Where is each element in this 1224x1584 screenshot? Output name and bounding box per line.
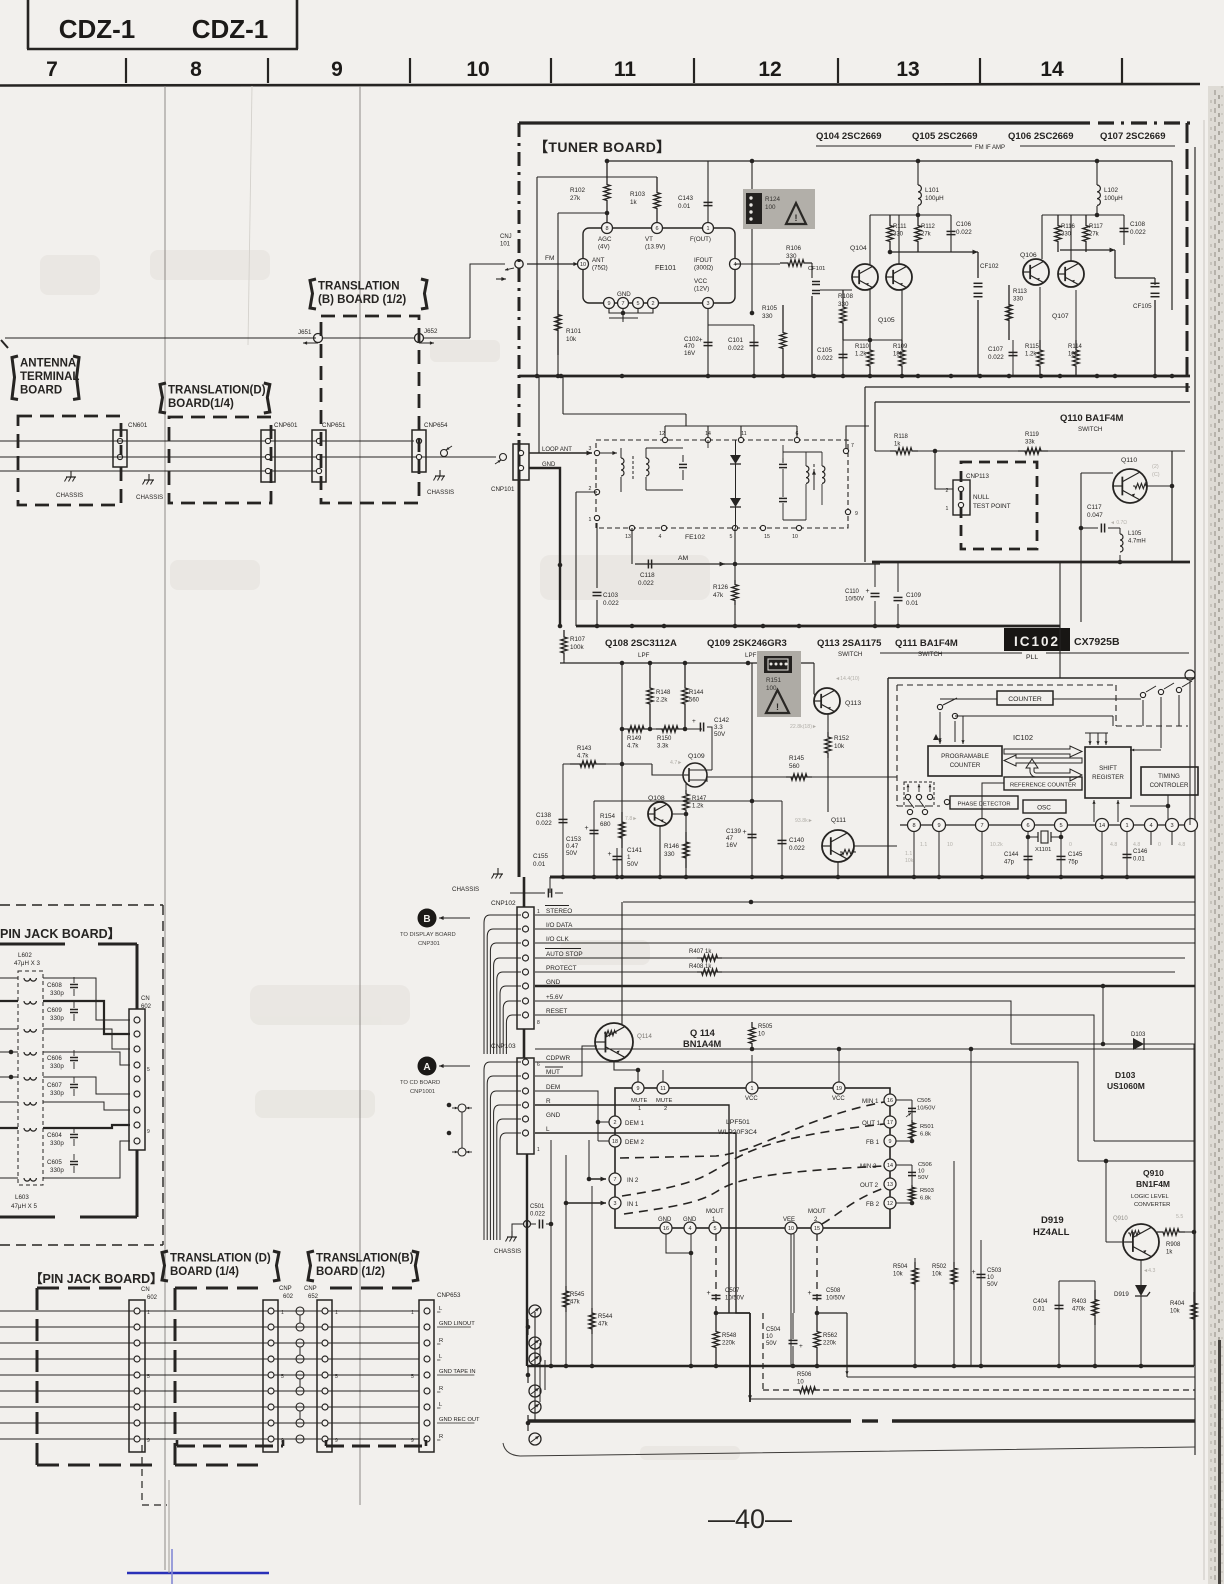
svg-text:R403: R403	[1072, 1299, 1087, 1305]
svg-text:IFOUT: IFOUT	[694, 257, 713, 264]
transistor Q105	[886, 264, 912, 290]
pin 4	[730, 259, 741, 270]
svg-text:L101: L101	[925, 187, 940, 194]
svg-text:11: 11	[741, 431, 746, 437]
svg-text:CNP653: CNP653	[437, 1292, 461, 1299]
capacitor C142	[699, 723, 701, 732]
svg-text:10k: 10k	[932, 1272, 943, 1278]
capacitor C105	[842, 340, 844, 376]
FE102 transformer 1	[621, 458, 624, 476]
jack stub	[441, 450, 448, 457]
svg-text:330p: 330p	[50, 1090, 64, 1097]
svg-text:1: 1	[627, 854, 631, 861]
svg-text:CNP101: CNP101	[491, 486, 515, 493]
svg-text:MOUT: MOUT	[808, 1209, 826, 1215]
wire	[537, 176, 657, 178]
svg-text:C143: C143	[678, 195, 694, 202]
wire VCC pins	[751, 1055, 753, 1082]
capacitor C503	[980, 1049, 982, 1366]
svg-text:11: 11	[660, 1086, 666, 1092]
connector CN602 lower	[129, 1300, 145, 1452]
svg-text:6.8k: 6.8k	[920, 1131, 931, 1137]
svg-text:C504: C504	[766, 1327, 781, 1333]
svg-text:Q910: Q910	[1113, 1216, 1128, 1222]
svg-text:FE101: FE101	[655, 263, 676, 272]
SR bottom arrows	[1093, 800, 1095, 822]
svg-text:+: +	[799, 1343, 803, 1350]
svg-text:4.7mH: 4.7mH	[1128, 539, 1146, 545]
svg-text:(C): (C)	[1152, 472, 1160, 478]
triple arrows	[1085, 732, 1108, 734]
svg-text:9: 9	[331, 58, 343, 81]
resistor R147	[685, 782, 687, 790]
svg-text:9: 9	[147, 1438, 150, 1444]
svg-text:R562: R562	[823, 1333, 838, 1339]
svg-text:GND: GND	[658, 1217, 672, 1223]
svg-text:PROTECT: PROTECT	[546, 965, 577, 972]
svg-text:PHASE DETECTOR: PHASE DETECTOR	[957, 802, 1010, 808]
svg-text:RESET: RESET	[546, 1008, 567, 1015]
svg-text:330: 330	[1013, 297, 1024, 303]
svg-text:Q107 2SC2669: Q107 2SC2669	[1100, 131, 1166, 142]
box Q910 left edge	[970, 1049, 972, 1366]
svg-text:R111: R111	[893, 224, 907, 230]
resistor R154	[619, 812, 625, 848]
transistor Q113	[814, 688, 840, 714]
svg-text:1: 1	[946, 506, 949, 512]
svg-text:1.1: 1.1	[905, 851, 912, 857]
svg-text:0.022: 0.022	[536, 820, 552, 827]
pin row PLL	[908, 819, 921, 832]
svg-text:C604: C604	[47, 1132, 62, 1139]
svg-text:9: 9	[937, 823, 940, 829]
svg-text:(12V): (12V)	[694, 286, 709, 293]
capacitor C101	[708, 324, 754, 326]
connector CN601	[113, 430, 127, 467]
svg-text:BOARD (1/2): BOARD (1/2)	[316, 1266, 385, 1278]
svg-text:10: 10	[580, 262, 586, 268]
svg-text:3.3k: 3.3k	[657, 744, 669, 750]
svg-text:Q104: Q104	[850, 245, 867, 252]
svg-text:+: +	[743, 829, 747, 836]
svg-text:0.47: 0.47	[566, 843, 579, 850]
svg-text:0.01: 0.01	[1033, 1307, 1045, 1313]
svg-text:330: 330	[664, 851, 675, 858]
wire row3	[0, 470, 316, 472]
svg-text:R: R	[439, 1434, 443, 1440]
svg-text:8: 8	[190, 58, 202, 81]
test point circles	[458, 1104, 466, 1112]
PLL dashed boundary	[897, 684, 1116, 686]
svg-text:CHASSIS: CHASSIS	[427, 489, 454, 496]
svg-text:12: 12	[659, 431, 665, 437]
svg-text:CF101: CF101	[808, 266, 825, 272]
wire CDPWR long	[535, 1062, 1078, 1161]
svg-text:C153: C153	[566, 836, 582, 843]
zener D919	[1140, 1260, 1142, 1285]
dashed signal curves	[620, 1102, 884, 1158]
filter CF101	[811, 263, 813, 278]
wire pin7 link	[846, 426, 869, 448]
svg-text:ANT: ANT	[592, 257, 605, 264]
svg-text:CNJ: CNJ	[500, 234, 512, 240]
svg-text:330p: 330p	[50, 1015, 64, 1022]
svg-text:(2): (2)	[1152, 464, 1159, 470]
resistor R114	[1073, 340, 1079, 376]
svg-text:1.2k: 1.2k	[855, 352, 867, 358]
svg-text:CNP: CNP	[304, 1286, 317, 1292]
harness CNP103	[483, 1061, 485, 1063]
resistor R126	[734, 528, 736, 580]
svg-text:C142: C142	[714, 717, 730, 724]
svg-text:C506: C506	[918, 1162, 932, 1168]
svg-text:+: +	[608, 851, 612, 858]
svg-text:8: 8	[605, 226, 608, 232]
svg-text:4.8: 4.8	[1133, 842, 1140, 848]
wire counter right	[1053, 698, 1141, 700]
svg-text:GND REC OUT: GND REC OUT	[439, 1417, 480, 1423]
svg-text:J651: J651	[298, 329, 312, 336]
svg-text:R107: R107	[570, 636, 586, 643]
svg-text:5: 5	[335, 1374, 338, 1380]
capacitor C143	[707, 161, 709, 224]
svg-text:C102: C102	[684, 336, 700, 343]
svg-text:7: 7	[621, 301, 624, 307]
svg-text:Q110 BA1F4M: Q110 BA1F4M	[1060, 413, 1123, 424]
svg-text:D919: D919	[1114, 1291, 1129, 1298]
faint column line	[248, 86, 252, 345]
resistor R108	[840, 290, 846, 340]
svg-text:680: 680	[600, 821, 611, 828]
pin jack board outer dashed box	[0, 904, 163, 906]
svg-text:Q107: Q107	[1052, 313, 1069, 320]
svg-text:C140: C140	[789, 837, 805, 844]
svg-text:4: 4	[733, 262, 736, 268]
resistor R407	[697, 955, 722, 961]
transistor Q108	[648, 802, 672, 826]
svg-text:C609: C609	[47, 1007, 62, 1014]
svg-text:R105: R105	[762, 305, 778, 312]
svg-text:IC102: IC102	[1013, 733, 1033, 742]
svg-text:9: 9	[855, 511, 858, 517]
PLL bus	[550, 876, 1195, 879]
svg-text:BN1F4M: BN1F4M	[1136, 1179, 1170, 1189]
wire switch row2	[955, 715, 1113, 717]
resistor R506	[795, 1387, 820, 1393]
svg-text:R101: R101	[566, 328, 582, 335]
svg-text:REFERENCE COUNTER: REFERENCE COUNTER	[1010, 783, 1076, 789]
svg-text:7: 7	[980, 823, 983, 829]
svg-text:2.2k: 2.2k	[656, 698, 668, 704]
svg-text:R110: R110	[855, 344, 870, 350]
svg-text:C144: C144	[1004, 852, 1019, 858]
wire counter left	[940, 698, 997, 700]
svg-text:7: 7	[46, 58, 58, 81]
svg-text:VCC: VCC	[694, 278, 708, 285]
translation D dashed box	[169, 417, 271, 503]
connector CN602 upper	[129, 1009, 145, 1150]
svg-text:COUNTER: COUNTER	[950, 762, 981, 769]
capacitor C506	[896, 1164, 912, 1166]
heavy bus 1421	[528, 1419, 851, 1422]
wire C139 C140 row	[594, 800, 782, 802]
inner board border	[0, 943, 65, 946]
svg-text:10k: 10k	[1170, 1309, 1181, 1315]
resistor R102	[604, 161, 610, 224]
svg-text:CF102: CF102	[980, 263, 999, 270]
resistor R145	[786, 774, 812, 780]
svg-text:10k: 10k	[893, 1272, 904, 1278]
pin 8	[602, 223, 613, 234]
wire Q111 to bus	[837, 862, 839, 876]
svg-text:1: 1	[537, 909, 540, 915]
svg-text:C508: C508	[826, 1288, 841, 1294]
svg-text:C404: C404	[1033, 1299, 1048, 1305]
wire right rail	[1171, 161, 1173, 310]
svg-text:R113: R113	[1013, 289, 1028, 295]
svg-text:652: 652	[308, 1294, 319, 1300]
svg-text:CNP301: CNP301	[418, 941, 440, 947]
svg-text:L: L	[546, 1126, 550, 1133]
svg-text:VCC: VCC	[745, 1096, 758, 1102]
OSC box	[1023, 800, 1066, 813]
svg-text:TO CD BOARD: TO CD BOARD	[400, 1080, 440, 1086]
capacitor C146	[1123, 853, 1132, 855]
capacitor C508	[813, 1294, 822, 1296]
wire to CNJ101	[423, 337, 470, 339]
svg-text:L602: L602	[18, 952, 32, 959]
svg-text:10: 10	[987, 1275, 994, 1281]
svg-text:R506: R506	[797, 1372, 812, 1378]
svg-text:C145: C145	[1068, 852, 1083, 858]
wire J row	[5, 337, 316, 339]
vertical link	[1059, 562, 1061, 678]
svg-text:SHIFT: SHIFT	[1099, 765, 1117, 772]
FE102 pins	[662, 437, 667, 442]
svg-text:0.022: 0.022	[817, 355, 833, 362]
svg-text:R154: R154	[600, 813, 616, 820]
svg-text:3: 3	[706, 301, 709, 307]
resistor R144	[682, 663, 688, 729]
translation D lower box	[175, 1287, 258, 1290]
svg-text:(4V): (4V)	[598, 244, 610, 251]
svg-text:9: 9	[147, 1129, 150, 1135]
svg-text:R106: R106	[786, 245, 802, 252]
connector CNP601	[261, 430, 275, 482]
svg-text:AM: AM	[678, 555, 689, 562]
MOUT1 dashed down	[715, 1234, 717, 1313]
svg-text:Q110: Q110	[1121, 457, 1137, 464]
resistor R501	[909, 1120, 915, 1141]
svg-text:VEE: VEE	[783, 1217, 795, 1223]
connector CNP113 box	[961, 462, 1037, 549]
svg-text:Q105 2SC2669: Q105 2SC2669	[912, 131, 978, 142]
svg-text:1: 1	[537, 1147, 540, 1153]
wires LPF bottom	[666, 1234, 691, 1253]
wire row2	[0, 456, 496, 458]
svg-text:TRANSLATION: TRANSLATION	[318, 281, 400, 293]
svg-text:50V: 50V	[766, 1341, 777, 1347]
svg-text:10: 10	[788, 1226, 794, 1232]
svg-text:220k: 220k	[823, 1341, 837, 1347]
svg-text:R126: R126	[713, 584, 729, 591]
arrow A	[418, 1057, 437, 1076]
connector CNP651	[312, 430, 326, 482]
svg-text:SWITCH: SWITCH	[1078, 426, 1102, 433]
capacitor C118	[647, 560, 649, 569]
svg-text:PROGRAMABLE: PROGRAMABLE	[941, 753, 989, 760]
svg-text:【PIN JACK BOARD】: 【PIN JACK BOARD】	[30, 1271, 163, 1286]
svg-text:US1060M: US1060M	[1107, 1081, 1145, 1091]
svg-text:0.01: 0.01	[1133, 857, 1145, 863]
svg-text:+: +	[692, 718, 696, 725]
svg-text:GND TAPE IN: GND TAPE IN	[439, 1369, 476, 1375]
L101	[917, 161, 919, 185]
svg-text:9: 9	[411, 1438, 414, 1444]
svg-text:C155: C155	[533, 853, 549, 860]
svg-text:0.022: 0.022	[789, 845, 805, 852]
wire stage1	[869, 215, 871, 264]
svg-text:47p: 47p	[1004, 860, 1015, 866]
svg-text:1: 1	[411, 1310, 414, 1316]
capacitor C102	[707, 308, 709, 375]
resistor R103	[654, 177, 660, 224]
svg-text:VCC: VCC	[832, 1096, 845, 1102]
resistor R112	[915, 215, 921, 252]
svg-text:Q111: Q111	[831, 817, 846, 824]
svg-text:Q114: Q114	[637, 1033, 652, 1040]
svg-text:R103: R103	[630, 191, 646, 198]
resistor R110	[867, 340, 873, 376]
svg-text:330p: 330p	[50, 1140, 64, 1147]
wire y1049	[535, 1048, 1195, 1050]
svg-text:TRANSLATION(B): TRANSLATION(B)	[316, 1253, 414, 1265]
wire gnd heavy	[529, 468, 560, 626]
capacitor C106	[950, 215, 952, 252]
svg-text:0.022: 0.022	[530, 1212, 546, 1218]
wire loop ant	[529, 452, 592, 454]
TIMING CONTROLLER box	[1141, 767, 1198, 795]
svg-text:16V: 16V	[726, 842, 738, 849]
capacitor C109	[897, 562, 899, 592]
svg-text:1: 1	[335, 1310, 338, 1316]
wire CNP101 drop	[538, 376, 540, 453]
svg-text:BOARD(1/4): BOARD(1/4)	[168, 398, 234, 410]
resistor R101	[555, 290, 561, 355]
svg-text:BN1A4M: BN1A4M	[683, 1039, 721, 1049]
svg-text:COUNTER: COUNTER	[1008, 696, 1042, 703]
svg-text:5: 5	[411, 1374, 414, 1380]
svg-text:10: 10	[766, 1334, 773, 1340]
svg-text:16: 16	[663, 1226, 669, 1232]
wire to CNP113	[935, 451, 953, 489]
svg-text:R150: R150	[657, 736, 672, 742]
svg-text:220k: 220k	[722, 1341, 736, 1347]
svg-text:MUT: MUT	[546, 1069, 560, 1076]
svg-text:CNP102: CNP102	[491, 900, 516, 907]
svg-text:3: 3	[1170, 823, 1173, 829]
svg-text:GND: GND	[683, 1217, 697, 1223]
J651	[314, 334, 323, 343]
column line	[164, 86, 166, 1570]
capacitor C505	[896, 1099, 912, 1101]
svg-text:MUTE: MUTE	[656, 1098, 673, 1104]
svg-text:CNP601: CNP601	[274, 422, 298, 429]
connector CNP602	[263, 1300, 278, 1452]
transistor Q111	[822, 830, 854, 862]
svg-text:5: 5	[147, 1067, 150, 1073]
connector CNP654	[412, 430, 426, 472]
svg-text:R545: R545	[570, 1292, 585, 1298]
FE102 transformer 2	[806, 466, 809, 483]
switch symbols left	[937, 704, 942, 709]
svg-text:7: 7	[614, 1177, 617, 1183]
FE102 diode 1	[730, 455, 741, 464]
signal R L verticals	[535, 1105, 729, 1313]
verticals below CNP103	[550, 1140, 552, 1366]
svg-text:Q108 2SC3112A: Q108 2SC3112A	[605, 638, 677, 649]
capacitor C110	[874, 564, 876, 587]
svg-text:9: 9	[607, 301, 610, 307]
svg-text:1: 1	[751, 1086, 754, 1092]
svg-text:CNP651: CNP651	[322, 422, 346, 429]
wire base Q104	[820, 289, 852, 291]
svg-text:GND: GND	[546, 1112, 561, 1119]
svg-text:R108: R108	[838, 293, 854, 300]
svg-text:13: 13	[896, 58, 919, 81]
svg-text:Q109: Q109	[688, 753, 705, 760]
svg-text:+: +	[808, 1290, 812, 1297]
svg-text:IC102: IC102	[1014, 634, 1060, 649]
wire y902	[623, 901, 1195, 903]
svg-text:A: A	[423, 1062, 430, 1073]
svg-text:R119: R119	[1025, 432, 1040, 438]
svg-text:C505: C505	[917, 1098, 931, 1104]
resistor R118	[875, 450, 893, 452]
svg-text:3: 3	[589, 446, 592, 452]
resistor R111	[887, 215, 893, 252]
svg-text:D103: D103	[1115, 1070, 1136, 1080]
svg-text:Q106: Q106	[1020, 252, 1037, 259]
wire Q109 connections	[652, 764, 683, 775]
right switch symbols	[1140, 692, 1145, 697]
svg-text:R151: R151	[766, 677, 782, 684]
svg-text:BOARD (1/4): BOARD (1/4)	[170, 1266, 239, 1278]
svg-text:13: 13	[887, 1182, 893, 1188]
svg-text:9: 9	[335, 1438, 338, 1444]
main bus	[519, 375, 1190, 378]
svg-text:TRANSLATION(D): TRANSLATION(D)	[168, 385, 266, 397]
wires to FE102 top	[563, 413, 686, 415]
resistor R403	[1094, 1281, 1096, 1366]
svg-text:C108: C108	[1130, 221, 1146, 228]
svg-text:8: 8	[537, 1020, 540, 1026]
arrow into PC	[939, 726, 941, 744]
svg-text:L603: L603	[15, 1194, 29, 1201]
svg-text:CHASSIS: CHASSIS	[494, 1248, 521, 1255]
svg-text:R548: R548	[722, 1333, 737, 1339]
connector CNP653	[419, 1300, 434, 1452]
resistor R107	[563, 626, 565, 632]
svg-text:1: 1	[589, 517, 592, 523]
resistor R148	[647, 663, 653, 729]
wire 1402	[750, 1398, 1195, 1400]
svg-text:1.2k: 1.2k	[692, 804, 704, 810]
transistor Q104	[852, 264, 878, 290]
svg-text:50V: 50V	[918, 1175, 928, 1181]
svg-text:(75Ω): (75Ω)	[592, 265, 608, 272]
svg-text:101: 101	[500, 242, 511, 248]
